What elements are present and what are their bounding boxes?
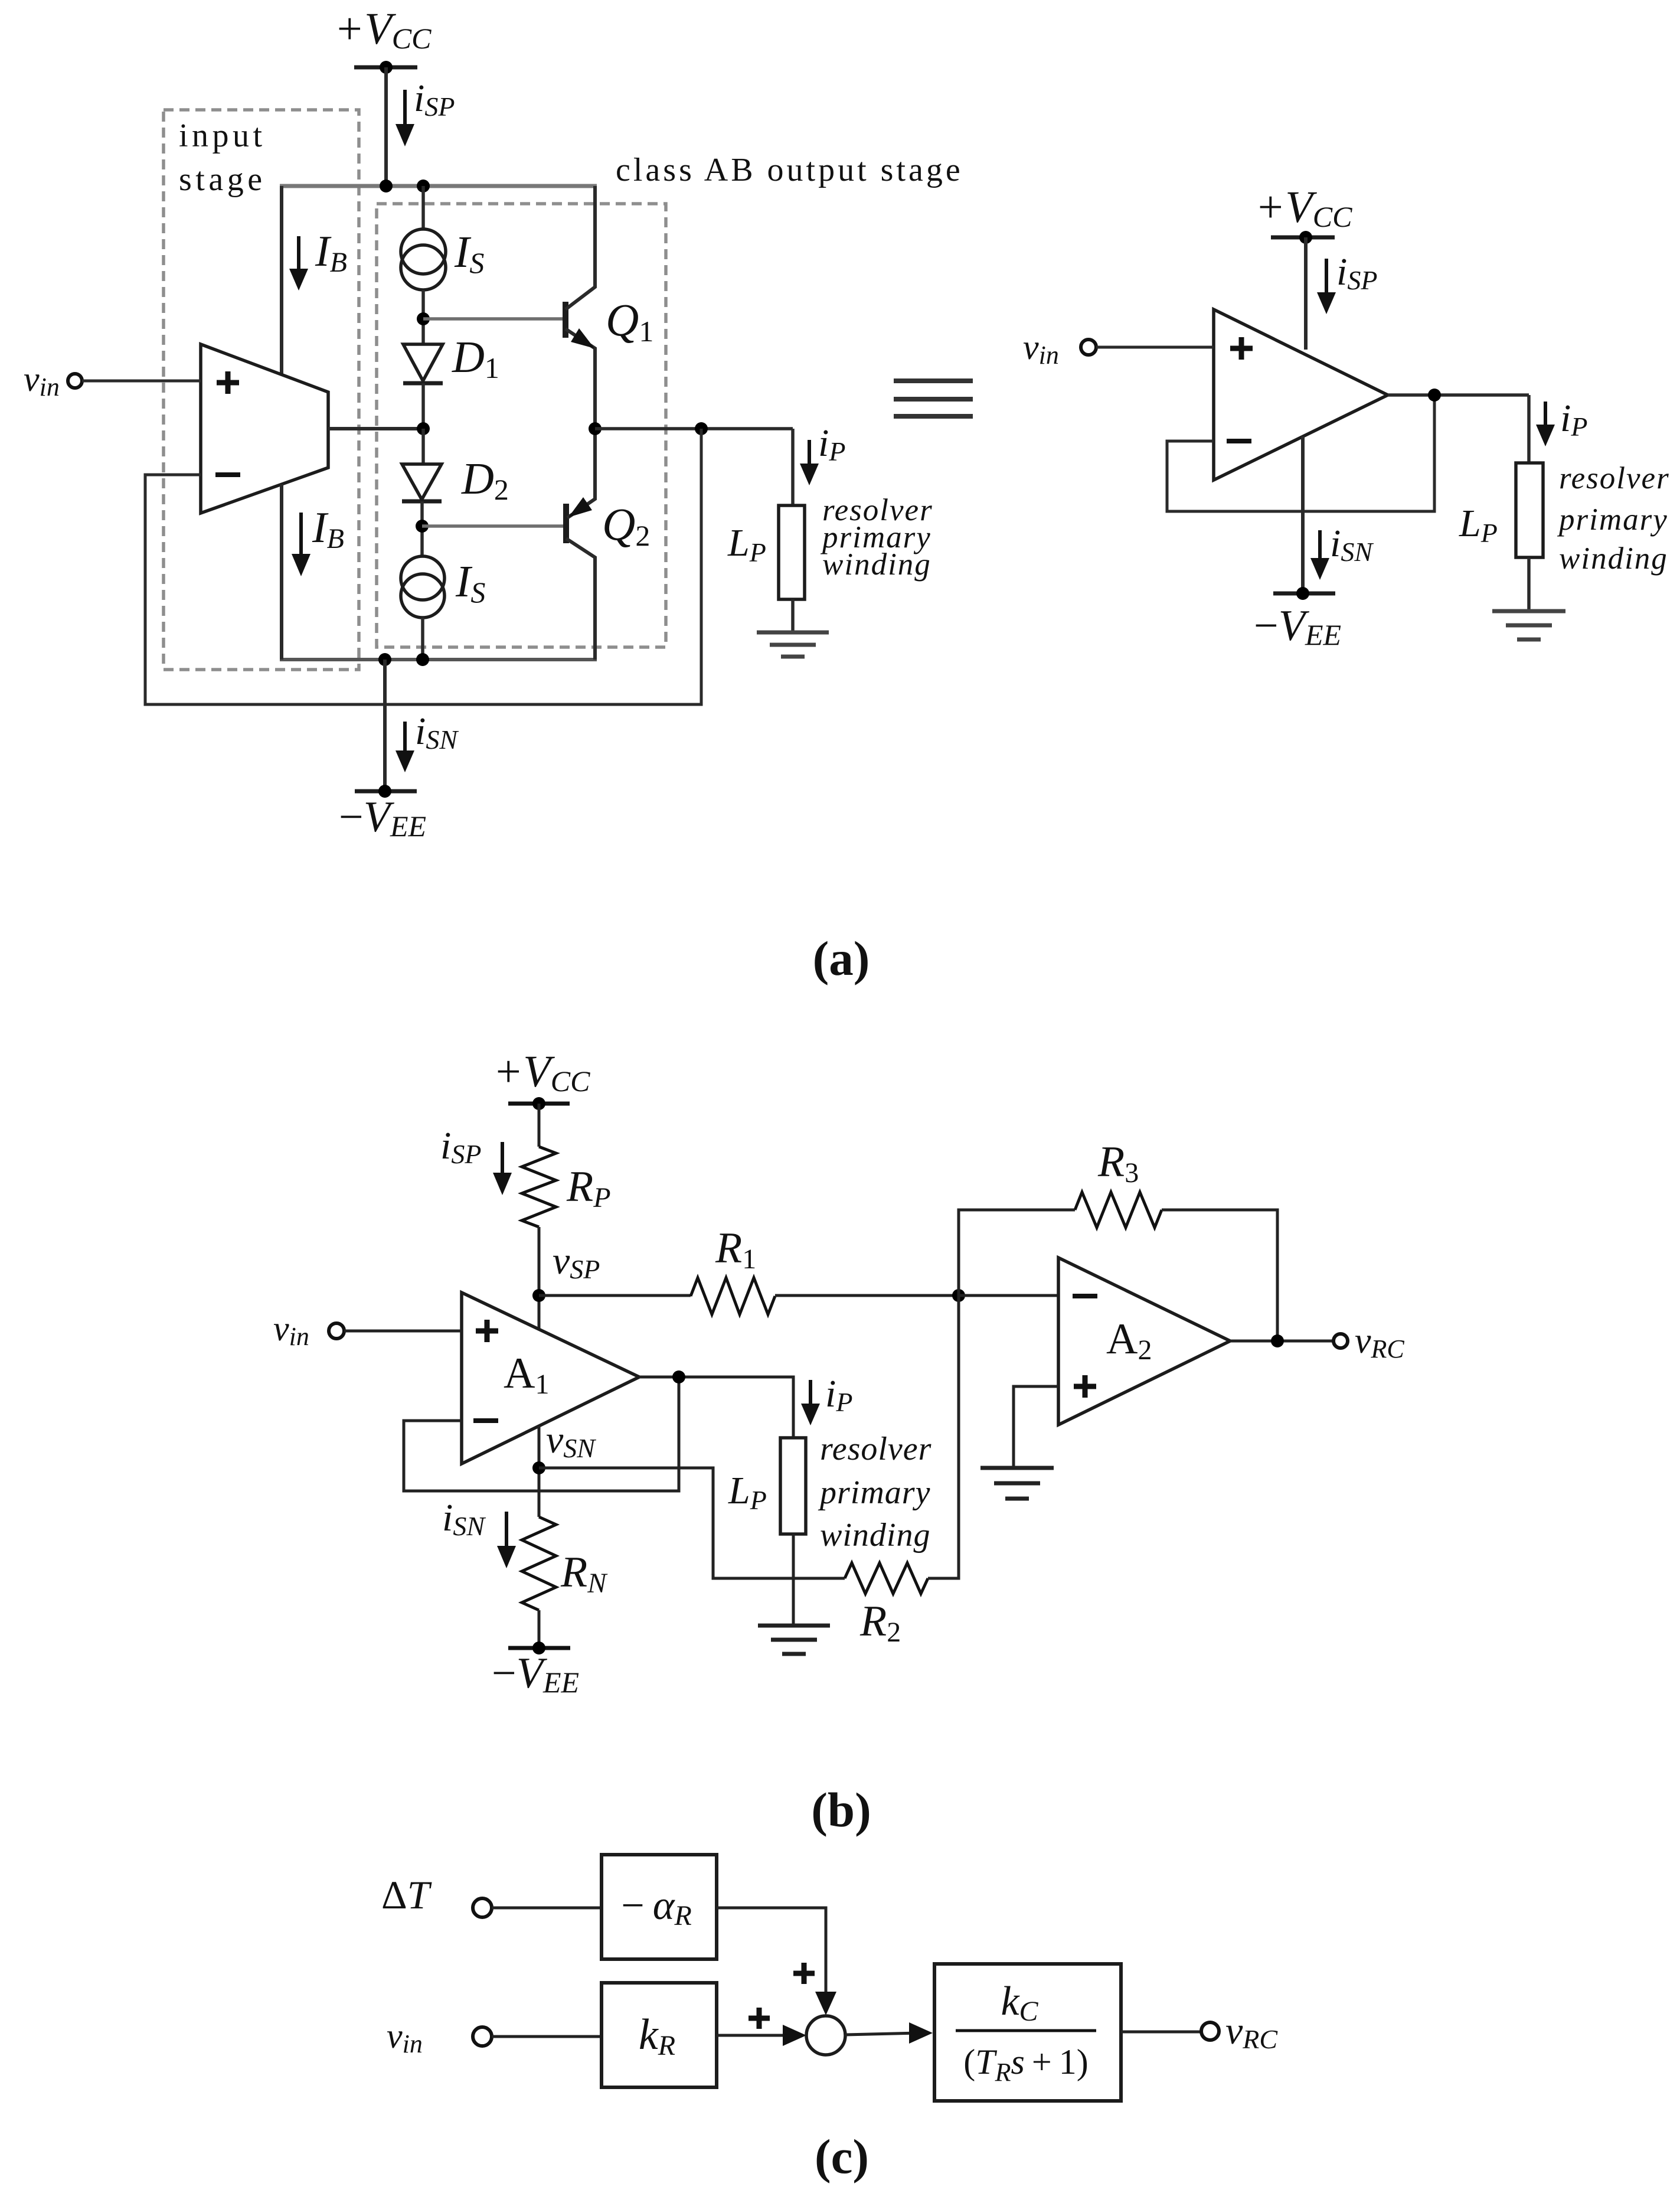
output wire (a-right) bbox=[1388, 393, 1529, 397]
current arrow iSP (a-left) bbox=[396, 77, 455, 146]
output terminal vRC (b) bbox=[1333, 1321, 1404, 1363]
current arrow iSP (a-right) bbox=[1317, 250, 1377, 314]
base wire Q2 bbox=[422, 524, 564, 528]
op-amp + mark bbox=[1230, 337, 1253, 360]
op-amp - mark bbox=[1227, 439, 1251, 443]
input terminal dT bbox=[381, 1872, 602, 1917]
wire summer to kC block bbox=[845, 2033, 919, 2035]
A2 + mark bbox=[1074, 1375, 1096, 1398]
wire D2 to base node Q2 bbox=[420, 501, 424, 557]
svg-text:winding: winding bbox=[822, 547, 931, 582]
ground (A2 +) bbox=[980, 1468, 1054, 1499]
output terminal vRC (c) bbox=[1201, 2009, 1278, 2054]
power +VCC (b) bbox=[493, 1047, 590, 1110]
block kR bbox=[602, 1983, 717, 2087]
current arrow IB (lower) bbox=[292, 504, 344, 576]
resistor RN bbox=[522, 1517, 608, 1610]
junction above D1 / base Q1 bbox=[417, 312, 430, 325]
op-amp output wire to diode midpoint bbox=[328, 427, 423, 430]
wire A2 plus to ground bbox=[1014, 1386, 1058, 1468]
junction at rail / VCC bbox=[380, 180, 393, 192]
wire rail to IS (upper) bbox=[421, 186, 425, 229]
current source IS (upper) bbox=[401, 229, 446, 290]
svg-text:(TRs + 1): (TRs + 1) bbox=[963, 2042, 1088, 2087]
wire R1 to summing node bbox=[775, 1294, 959, 1297]
output wire to LP bbox=[595, 427, 793, 430]
label: resolver primary winding (b) bbox=[818, 1431, 931, 1554]
wire +VCC to op-amp bbox=[1304, 237, 1308, 350]
junction node (R1/R2/R3/A2-) bbox=[952, 1289, 965, 1302]
svg-text:stage: stage bbox=[179, 161, 266, 198]
power +VCC (a-left) bbox=[334, 4, 432, 74]
svg-text:primary: primary bbox=[1557, 502, 1668, 537]
wire vSN to R2 bbox=[539, 1468, 845, 1578]
wire op-amp to -VEE (iSN branch) bbox=[1301, 436, 1305, 593]
current arrow iSN (a-left) bbox=[396, 710, 459, 772]
svg-text:winding: winding bbox=[1559, 541, 1668, 576]
A2 output wire bbox=[1230, 1340, 1333, 1343]
node vSP bbox=[532, 1239, 600, 1302]
current arrow iP (a-left) bbox=[800, 422, 845, 485]
input terminal vin (c) bbox=[387, 2016, 602, 2058]
junction rail / isn bbox=[378, 653, 391, 666]
current arrow iSN (b) bbox=[442, 1496, 516, 1568]
svg-text:winding: winding bbox=[820, 1517, 930, 1554]
ground (a-left LP) bbox=[757, 632, 829, 657]
input terminal vin (a-left) bbox=[24, 360, 201, 402]
op-amp U1 (input stage amplifier, trapezoid) bbox=[201, 344, 328, 513]
base wire Q1 bbox=[423, 317, 563, 321]
wire rail to op-amp top (IB branch) bbox=[280, 186, 283, 374]
input terminal vin (b) bbox=[273, 1309, 462, 1351]
svg-text:input: input bbox=[179, 118, 266, 154]
arrow into summer (left) bbox=[783, 2025, 806, 2046]
input terminal vin (a-right) bbox=[1023, 328, 1214, 370]
svg-text:(c): (c) bbox=[815, 2129, 869, 2184]
current source IS (lower) bbox=[401, 556, 444, 618]
transistor Q2 bbox=[566, 429, 650, 660]
wire LP to ground (b) bbox=[792, 1534, 795, 1626]
wire op-amp bottom to rail (IB lower branch) bbox=[280, 484, 283, 660]
wire junction to D2 bbox=[421, 429, 425, 464]
junction A1 output bbox=[672, 1370, 685, 1383]
power -VEE (a-left) bbox=[339, 785, 426, 843]
svg-text:resolver: resolver bbox=[820, 1431, 931, 1467]
ground (b LP) bbox=[758, 1626, 830, 1654]
resistor RP bbox=[522, 1147, 611, 1227]
wire LP to ground bbox=[791, 599, 795, 632]
current arrow iSP (b) bbox=[440, 1124, 512, 1195]
inductor LP (resolver primary winding, a-left) bbox=[727, 505, 805, 599]
inductor LP (a-right) bbox=[1459, 463, 1543, 557]
node vSN bbox=[532, 1418, 596, 1517]
wire node to A2 minus bbox=[959, 1294, 1058, 1297]
op-amp + input mark bbox=[217, 371, 239, 394]
label: resolver primary winding (a-left) bbox=[820, 493, 933, 582]
diode D1 bbox=[403, 332, 499, 384]
wire RP to vSP node bbox=[538, 1227, 541, 1329]
svg-text:primary: primary bbox=[818, 1474, 930, 1511]
block -aR bbox=[602, 1855, 717, 1959]
bottom supply rail (a-left) bbox=[280, 658, 597, 661]
op-amp (a-right triangle) bbox=[1214, 309, 1388, 480]
A2 - mark bbox=[1073, 1294, 1097, 1298]
output node (emitters) bbox=[589, 422, 602, 435]
wire IS lower to bottom rail bbox=[421, 618, 424, 660]
feedback wire (minus input loop) bbox=[145, 429, 701, 704]
power -VEE (a-right) bbox=[1254, 587, 1341, 651]
wire to LP (a-right) bbox=[1527, 395, 1531, 463]
A1 + mark bbox=[476, 1320, 498, 1342]
wire RN to -VEE bbox=[538, 1610, 541, 1648]
plus sign (left input) bbox=[749, 2008, 770, 2029]
wire R2 to node bbox=[928, 1295, 959, 1578]
ground (a-right) bbox=[1492, 611, 1565, 639]
wire LP to ground (a-right) bbox=[1527, 557, 1531, 611]
class AB output stage dashed box bbox=[377, 204, 666, 647]
wire kC to vRC bbox=[1121, 2031, 1201, 2034]
equivalence symbol bbox=[894, 381, 973, 416]
wire D1 to output node bbox=[421, 383, 425, 429]
arrow into summer (top) bbox=[815, 1992, 836, 2015]
current arrow iP (b) bbox=[801, 1372, 852, 1425]
svg-text:(a): (a) bbox=[813, 931, 870, 985]
wire +VCC to top rail bbox=[384, 67, 388, 186]
wire node to LP top bbox=[791, 429, 795, 505]
input stage dashed box bbox=[164, 110, 359, 670]
wire +VCC to RP bbox=[538, 1104, 541, 1147]
A1 - mark bbox=[473, 1418, 498, 1423]
junction between D1 and D2 bbox=[417, 422, 430, 435]
A1 output wire to LP bbox=[639, 1377, 793, 1438]
op-amp - input mark bbox=[215, 472, 240, 477]
power +VCC (a-right) bbox=[1255, 182, 1352, 244]
resistor R2 bbox=[845, 1563, 928, 1648]
op-amp A2 bbox=[1058, 1258, 1230, 1425]
current arrow iP (a-right) bbox=[1536, 397, 1587, 446]
junction A2 output / R3 bbox=[1271, 1334, 1284, 1347]
block kC/(TRs+1) bbox=[934, 1964, 1121, 2101]
top supply rail (a-left) bbox=[280, 184, 597, 188]
wire kR to summer bbox=[717, 2034, 800, 2037]
svg-text:ΔT: ΔT bbox=[381, 1872, 432, 1917]
wire bottom rail to -VEE bbox=[383, 660, 387, 791]
op-amp A1 bbox=[462, 1293, 639, 1464]
arrow into kC block bbox=[909, 2022, 933, 2044]
junction output / feedback bbox=[695, 422, 708, 435]
feedback wire A1 bbox=[404, 1377, 679, 1491]
junction at rail / IS branch bbox=[417, 180, 430, 192]
resistor R1 bbox=[691, 1224, 775, 1314]
svg-text:class AB output stage: class AB output stage bbox=[616, 152, 963, 188]
summing junction bbox=[806, 2016, 845, 2055]
current arrow iSN (a-right) bbox=[1310, 522, 1374, 580]
inductor LP (b) bbox=[728, 1438, 806, 1534]
resistor R3 feedback bbox=[959, 1138, 1277, 1341]
wire -aR to summer bbox=[717, 1908, 826, 2008]
wire IS to D1 node bbox=[421, 290, 425, 344]
diode D2 bbox=[402, 454, 509, 506]
svg-text:resolver: resolver bbox=[1559, 461, 1670, 495]
junction rail / IS lower bbox=[416, 653, 429, 666]
junction output / feedback (a-right) bbox=[1428, 389, 1441, 402]
svg-text:(b): (b) bbox=[811, 1783, 871, 1837]
power -VEE (b) bbox=[492, 1642, 579, 1699]
label: resolver primary winding (a-right) bbox=[1557, 461, 1670, 576]
feedback wire (a-right) bbox=[1167, 395, 1434, 511]
junction below D2 / base Q2 bbox=[416, 520, 429, 533]
transistor Q1 bbox=[566, 186, 653, 429]
plus sign (top input) bbox=[793, 1963, 815, 1984]
current arrow IB (upper) bbox=[289, 227, 347, 291]
wire vSP to R1 bbox=[539, 1294, 691, 1297]
